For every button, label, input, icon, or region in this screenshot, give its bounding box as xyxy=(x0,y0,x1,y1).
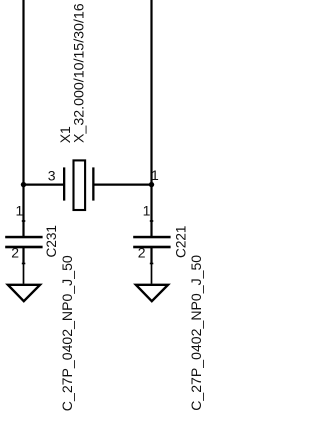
svg-text:C231: C231 xyxy=(44,225,59,258)
capacitor C231 top plate xyxy=(5,236,42,239)
capacitor C221 top plate xyxy=(133,236,170,239)
node B: junction dot right xyxy=(149,182,154,187)
svg-text:1: 1 xyxy=(16,203,24,219)
wire: right net vertical from top edge to junction B xyxy=(150,0,152,185)
pin end marker C231 pin 2 xyxy=(22,263,26,265)
wire: right ground net to ground symbol xyxy=(151,264,153,284)
wire: crystal X1 pin 1 to junction B xyxy=(94,184,152,186)
svg-text:2: 2 xyxy=(11,244,19,260)
ground symbol right xyxy=(136,285,168,301)
svg-text:1: 1 xyxy=(151,167,159,183)
svg-text:1: 1 xyxy=(143,203,151,219)
pin end marker C221 pin 1 xyxy=(150,220,154,222)
svg-text:2: 2 xyxy=(138,244,146,260)
capacitor C221 xyxy=(133,236,170,249)
wire: junction A to crystal X1 pin 3 xyxy=(23,184,64,186)
pin end marker C221 pin 2 xyxy=(150,263,154,265)
crystal X1 right electrode plate xyxy=(92,167,94,200)
wire: junction A down to C231 pin 1 xyxy=(22,185,24,237)
node A: junction dot left xyxy=(21,182,26,187)
svg-text:C_27P_0402_NP0_J_50: C_27P_0402_NP0_J_50 xyxy=(188,255,204,411)
pin end marker C231 pin 1 xyxy=(22,220,26,222)
svg-text:X1: X1 xyxy=(57,126,73,143)
svg-text:C_27P_0402_NP0_J_50: C_27P_0402_NP0_J_50 xyxy=(59,255,75,411)
svg-text:X_32.000/10/15/30/16: X_32.000/10/15/30/16 xyxy=(72,3,88,143)
wire: C231 pin 2 to ground net stub xyxy=(22,248,24,264)
crystal X1 body rectangle xyxy=(74,160,86,210)
capacitor C231 bottom plate xyxy=(5,246,42,249)
wire: junction B down to C221 pin 1 xyxy=(150,185,152,237)
svg-text:C221: C221 xyxy=(173,226,188,259)
wire: C221 pin 2 to ground net stub xyxy=(150,248,152,264)
wire: left net vertical from top edge to junction A xyxy=(22,0,24,185)
svg-text:3: 3 xyxy=(48,168,56,184)
ground symbol left xyxy=(8,285,40,301)
crystal X1 left electrode plate xyxy=(63,167,65,200)
capacitor C231 xyxy=(5,236,42,249)
capacitor C221 bottom plate xyxy=(133,246,170,249)
wire: left ground net to ground symbol xyxy=(23,264,25,284)
crystal X1 xyxy=(63,160,95,210)
